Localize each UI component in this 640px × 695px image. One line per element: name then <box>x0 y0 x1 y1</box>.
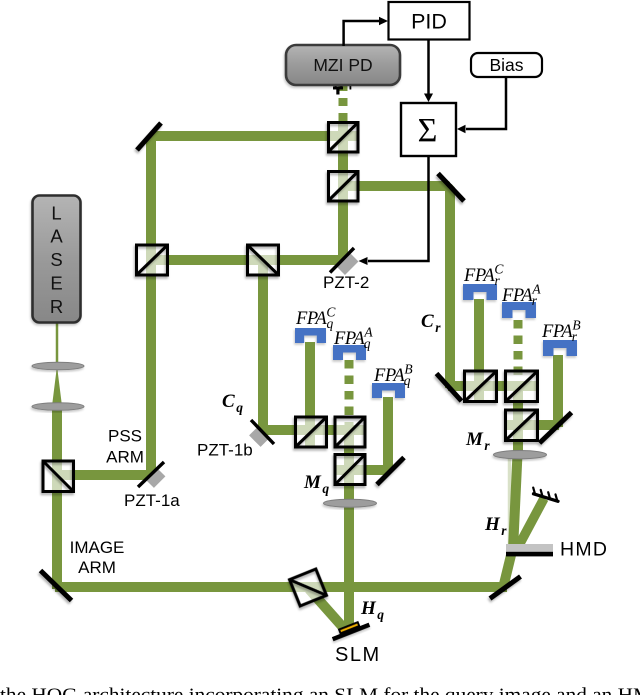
lens L1 <box>32 362 84 370</box>
PZT-1a mirror <box>138 462 164 487</box>
PZT-1a piezo <box>150 472 162 484</box>
wire: q side horizontal beam mirror to BS-q3 <box>337 465 391 475</box>
beamsplitter BS-q3 <box>335 455 365 485</box>
wire: top horizontal beam mirror to BS1 <box>146 131 357 141</box>
box Bias <box>471 53 542 77</box>
wire: Cq vertical beam BS-M to PZT-1b <box>258 260 268 431</box>
svg-text:IMAGE: IMAGE <box>70 538 125 557</box>
svg-text:PZT-1b: PZT-1b <box>197 441 253 460</box>
svg-text:MZI PD: MZI PD <box>313 55 372 75</box>
wire: dashed beam to MZI PD <box>339 83 348 122</box>
beamsplitter BS-r3 <box>506 410 538 441</box>
svg-text:A: A <box>50 226 63 247</box>
grating comb at Hr output <box>533 488 558 502</box>
wire: PID to sigma with arrow <box>427 40 430 95</box>
PZT-1b mirror <box>251 420 274 444</box>
svg-text:the HOG architecture incorpora: the HOG architecture incorporating an SL… <box>0 685 640 695</box>
svg-text:FPABr: FPABr <box>541 318 580 345</box>
wire: MZI PD to PID with arrow <box>344 21 379 46</box>
wire: PSS horizontal beam BS-IA to PZT-1a <box>53 470 153 480</box>
detector FPA-qA <box>333 345 366 360</box>
photodiode symbol under MZI PD <box>333 84 351 95</box>
detector FPA-qB <box>372 383 405 398</box>
svg-text:SLM: SLM <box>335 644 381 666</box>
beamsplitter BS-M (query pickoff) <box>248 245 279 275</box>
lens L2 <box>32 403 84 411</box>
box PID <box>389 2 470 40</box>
wire: Cr vertical beam <box>445 184 455 388</box>
svg-text:FPAAr: FPAAr <box>501 282 541 309</box>
wire: PSS vertical beam PZT-1a to top mirror <box>146 134 156 476</box>
wire: Mq vertical beam BS-q2 to SLM <box>344 432 354 628</box>
svg-text:S: S <box>50 249 62 270</box>
wire: tilted beam holographic BS to SLM <box>309 589 345 629</box>
mask above top-left mirror <box>134 122 161 153</box>
wire: image-arm vertical beam below lens L2 <box>52 406 62 589</box>
mirror Mq fold <box>377 458 404 485</box>
beamsplitter BS1 (MZI top) <box>329 123 359 153</box>
lens Lq <box>324 499 377 507</box>
label IMAGE ARM <box>70 538 125 577</box>
wire: MZI vertical beam BS1 to PZT-2 <box>338 122 348 262</box>
svg-text:Σ: Σ <box>418 112 438 149</box>
SLM chip <box>330 618 370 642</box>
svg-text:HMD: HMD <box>560 539 608 561</box>
svg-text:E: E <box>50 273 62 294</box>
svg-text:PID: PID <box>411 10 447 34</box>
wire: Mr vertical beam BS-r2 to HMD <box>513 386 523 457</box>
beamsplitter BS-q1 <box>296 417 327 447</box>
beamsplitter BS-IA (image arm) <box>43 461 74 492</box>
HMD element black base <box>506 552 553 557</box>
wire: IMAGE ARM horizontal beam <box>55 582 507 592</box>
svg-text:FPACr: FPACr <box>463 262 504 289</box>
svg-text:L: L <box>51 203 61 224</box>
beamsplitter BS2 (MZI bottom) <box>329 172 359 202</box>
wire: FPA-rA dashed beam <box>514 320 523 386</box>
box sigma summing <box>401 103 456 156</box>
wire: laser thin beam to lens L1 <box>56 322 59 366</box>
PZT-2 piezo <box>340 257 354 271</box>
mirror top-left <box>137 123 161 150</box>
PZT-2 mirror <box>330 248 354 273</box>
wire: FPA-qA dashed beam <box>345 360 354 432</box>
PZT-1b piezo <box>254 431 266 443</box>
wire: faint straight leak below lens Lr <box>508 458 512 548</box>
detector FPA-qC <box>295 328 326 343</box>
detector FPA-rA <box>502 302 536 318</box>
mirror Cr fold <box>437 374 462 402</box>
svg-text:FPACq: FPACq <box>295 305 336 332</box>
beamsplitter BS-L (PSS arm) <box>137 245 168 275</box>
mirror bottom-right <box>490 577 521 599</box>
svg-text:Bias: Bias <box>489 55 523 75</box>
svg-text:FPAAq: FPAAq <box>333 325 373 352</box>
svg-text:PSS: PSS <box>108 427 142 446</box>
label PSS ARM <box>106 427 144 467</box>
wire: q-row horizontal beam PZT-1b to BS-q2 <box>262 425 364 435</box>
wire: Bias to sigma with arrow <box>466 77 506 129</box>
wire: FPA-rB vertical beam <box>553 355 563 427</box>
box MZI PD <box>286 45 400 85</box>
HMD element glass <box>506 544 553 552</box>
detector FPA-rC <box>463 284 497 300</box>
svg-text:PZT-2: PZT-2 <box>323 273 369 292</box>
svg-text:R: R <box>50 296 63 317</box>
wire: interferometer horizontal beam BS-L to PZT-2 <box>146 255 348 265</box>
mirror bottom-left <box>41 571 72 601</box>
svg-text:PZT-1a: PZT-1a <box>124 491 180 510</box>
box LASER <box>33 196 81 323</box>
beamsplitter BS-q2 <box>335 417 365 447</box>
wire: BS2 horizontal beam to top-right mirror <box>343 181 450 191</box>
lens Lr <box>494 451 547 459</box>
beamsplitter BS-H (rotated, holographic) <box>290 569 327 606</box>
detector FPA-rB <box>543 340 577 356</box>
svg-text:FPABq: FPABq <box>373 362 412 389</box>
wire: FPA-rC vertical beam <box>474 299 484 401</box>
wire: expanding beam cone between lenses <box>52 366 62 406</box>
wire: tilted beam HMD to grating comb <box>517 499 544 550</box>
wire: tilted beam HMD to bottom-right mirror <box>504 547 514 586</box>
wire: sigma to PZT-2 with arrow <box>368 156 429 261</box>
wire: slightly tilted beam lens Lr to HMD <box>513 454 518 550</box>
mirror top-right <box>438 174 464 202</box>
beamsplitter BS-r1 <box>465 371 497 402</box>
beamsplitter BS-r2 <box>506 371 538 402</box>
wire: FPA-qC vertical beam <box>305 342 315 446</box>
svg-text:ARM: ARM <box>106 448 144 467</box>
wire: r-row horizontal beam to BS-r2 <box>448 381 537 391</box>
svg-text:ARM: ARM <box>78 558 116 577</box>
mirror Mr fold <box>540 413 572 444</box>
mask above top-right mirror <box>440 172 466 200</box>
wire: FPA-qB vertical beam <box>383 397 393 472</box>
wire: r side horizontal beam mirror to BS-r3 <box>507 420 559 430</box>
